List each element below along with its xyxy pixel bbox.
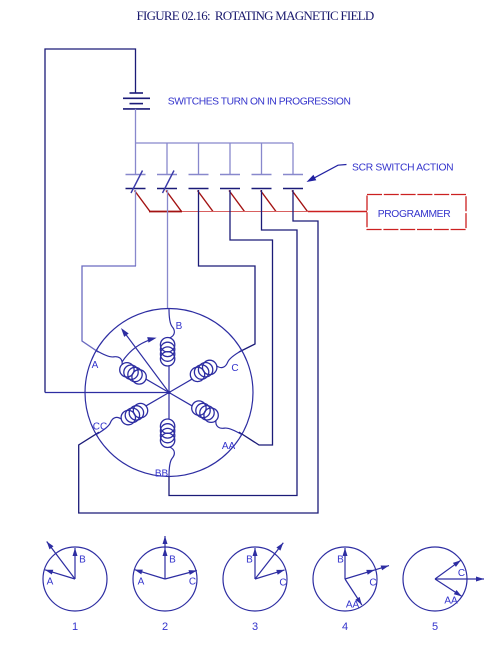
arrow B3 <box>254 548 256 579</box>
battery B1 <box>123 93 150 109</box>
svg-text:B: B <box>176 321 183 332</box>
svg-text:BB: BB <box>155 469 169 480</box>
svg-text:B: B <box>79 555 86 566</box>
arrow B4 <box>344 548 346 579</box>
wire S2 to coil B <box>167 190 169 309</box>
svg-text:2: 2 <box>162 621 168 633</box>
arrowhead C4 edge <box>366 570 374 575</box>
SCR arrow <box>314 165 347 179</box>
switch S2 <box>157 143 177 193</box>
SCR red wire S4 <box>229 191 245 212</box>
arrow A1 <box>45 570 75 579</box>
resultant 2 <box>164 536 166 579</box>
switch S1 <box>126 143 146 193</box>
arrow AA5 <box>435 579 462 596</box>
arrow A2 <box>134 570 165 579</box>
arrow C2 <box>165 571 197 580</box>
resultant 4 <box>345 566 389 579</box>
svg-text:AA: AA <box>222 441 236 452</box>
svg-text:C: C <box>369 578 376 589</box>
svg-text:SWITCHES TURN ON IN PROGRESSIO: SWITCHES TURN ON IN PROGRESSION <box>168 97 351 108</box>
phase circle 2 <box>133 547 197 611</box>
phase circle 3 <box>223 547 287 611</box>
svg-text:A: A <box>92 360 99 371</box>
svg-text:A: A <box>138 577 145 588</box>
coil A <box>146 379 169 392</box>
svg-text:B: B <box>169 555 176 566</box>
svg-text:1: 1 <box>72 621 78 633</box>
switch S6 <box>283 143 303 189</box>
SCR red wire S3 <box>198 191 214 212</box>
wire S5 to coil BB <box>169 190 297 496</box>
arrow AA4 <box>345 579 362 605</box>
red bus to programmer <box>149 211 182 213</box>
arrowhead B2 edge <box>163 548 168 556</box>
arrow C3 <box>255 570 285 579</box>
phase circle 4 <box>313 547 377 611</box>
svg-text:C: C <box>279 578 286 589</box>
switch S3 <box>189 143 209 189</box>
svg-text:B: B <box>337 555 344 566</box>
coil B <box>168 366 170 393</box>
svg-text:CC: CC <box>93 422 107 433</box>
coil AA <box>169 393 192 406</box>
svg-text:C: C <box>458 568 465 579</box>
coil C <box>169 379 192 392</box>
phase circle 5 <box>403 547 467 611</box>
wire neutral return to stator center <box>45 392 169 394</box>
svg-text:3: 3 <box>252 621 258 633</box>
coil BB <box>168 393 170 420</box>
rotation resultant arrow <box>124 332 169 393</box>
resultant 1 <box>47 542 75 580</box>
arrow C5 <box>435 560 461 579</box>
svg-text:PROGRAMMER: PROGRAMMER <box>378 209 451 220</box>
wire battery top loop <box>45 49 136 393</box>
wire S6 to coil CC <box>79 190 318 513</box>
svg-text:C: C <box>189 577 196 588</box>
wire S4 to coil AA <box>230 190 273 445</box>
arrow B1 <box>74 548 76 579</box>
svg-text:5: 5 <box>432 621 438 633</box>
resultant 5 <box>435 578 484 580</box>
SCR red wire S5 <box>261 191 277 212</box>
switch S5 <box>252 143 272 189</box>
svg-text:FIGURE 02.16: ROTATING MAGNET: FIGURE 02.16: ROTATING MAGNETIC FIELD <box>137 8 374 23</box>
coil CC <box>146 393 169 406</box>
wire S3 to coil C <box>199 190 256 352</box>
wire S1 to coil A <box>135 190 137 266</box>
switch S4 <box>220 143 240 189</box>
svg-text:AA: AA <box>444 596 458 607</box>
programmer box <box>367 195 466 230</box>
rotation arc arrow <box>122 339 154 362</box>
wire top bus <box>136 142 294 144</box>
svg-text:A: A <box>47 577 54 588</box>
svg-text:4: 4 <box>342 621 348 633</box>
node center <box>167 391 170 394</box>
svg-text:AA: AA <box>346 600 360 611</box>
resultant 3 <box>255 543 283 579</box>
stator circle <box>85 309 253 477</box>
SCR red wire S1 <box>135 191 151 212</box>
svg-text:C: C <box>231 363 238 374</box>
SCR red wire S2 <box>166 191 182 212</box>
svg-text:B: B <box>246 555 253 566</box>
SCR red wire S6 <box>292 191 308 212</box>
wire battery to bus <box>135 109 137 143</box>
svg-text:SCR SWITCH ACTION: SCR SWITCH ACTION <box>352 163 453 174</box>
phase circle 1 <box>43 547 107 611</box>
